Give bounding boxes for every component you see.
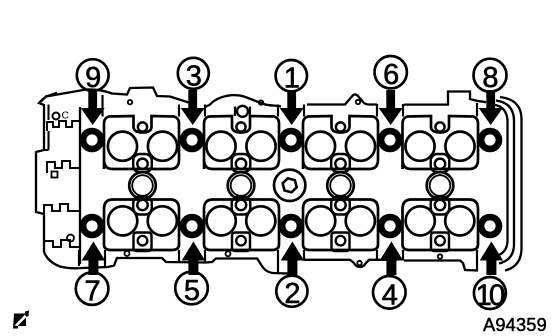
cylinder 2 tower boss walls (235, 107, 250, 117)
head bolt 4 (bottom row) (378, 214, 403, 239)
left block castellation row 3 (44, 204, 79, 215)
right end middle wall arc (496, 101, 514, 264)
left end block inner wall (79, 107, 81, 264)
svg-text:4: 4 (382, 279, 398, 311)
svg-text:10: 10 (475, 279, 504, 312)
callout number 4 (373, 276, 406, 311)
right end outer wall arc (500, 97, 522, 271)
camshaft bearing cap cylinder 1 bottom (104, 197, 179, 252)
bottom edge screw circle 3 (357, 261, 361, 265)
top edge screw circle mid-left (whale eye) (259, 100, 263, 104)
head bottom edge outline (44, 252, 478, 274)
left block castellation row 1 (47, 121, 79, 131)
arrow to bolt 1 (280, 90, 304, 125)
bottom edge screw circle 2 (226, 251, 231, 256)
head top edge outline (39, 88, 486, 108)
cylinder 2 tower boss circle (237, 106, 248, 117)
callout number 8 (474, 59, 507, 95)
arrow to bolt 9 (81, 90, 105, 125)
spark plug tube cylinder 4 (427, 172, 454, 199)
camshaft bearing cap cylinder 4 bottom (403, 197, 479, 252)
head bolt 3 (top row) (180, 128, 205, 153)
callout number 9 (77, 59, 109, 94)
callout number 7 (76, 272, 109, 307)
svg-text:5: 5 (184, 275, 200, 307)
arrow to bolt 7 (82, 242, 105, 276)
head bolt 9 (top row) (80, 128, 105, 153)
callout number 6 (375, 56, 407, 91)
svg-text:3: 3 (186, 60, 202, 92)
head bolt 1 (top row) (279, 128, 304, 153)
svg-text:A94359: A94359 (483, 315, 547, 335)
callout number 5 (175, 272, 208, 307)
bolt pocket walls top row (103, 95, 478, 117)
top edge screw circle left (128, 100, 132, 104)
callout number 2 (276, 276, 307, 311)
camshaft bearing cap cylinder 2 bottom (204, 197, 279, 252)
bolt pocket walls bottom row (79, 250, 477, 272)
head bolt 7 (bottom row) (80, 214, 105, 239)
arrow to bolt 6 (379, 90, 403, 125)
centre hex head plug (274, 170, 305, 201)
right end inner wall arc (493, 105, 508, 257)
svg-text:7: 7 (85, 276, 101, 308)
arrow to bolt 4 (380, 242, 403, 276)
left block small circle top (53, 113, 60, 120)
camshaft bearing cap cylinder 1 top (104, 116, 179, 172)
arrow to bolt 10 (480, 242, 503, 276)
camshaft bearing cap cylinder 4 top (403, 116, 479, 172)
camshaft bearing cap cylinder 2 top (204, 116, 279, 172)
callout number 3 (178, 58, 209, 93)
svg-text:C: C (62, 110, 70, 122)
bottom edge screw circle 1 (125, 251, 130, 256)
spark plug tube cylinder 2 (228, 172, 255, 199)
head bolt 2 (bottom row) (279, 214, 304, 239)
svg-text:6: 6 (383, 59, 399, 91)
left block wall thickness line (44, 105, 49, 151)
head bolt 5 (bottom row) (180, 214, 205, 239)
top edge screw circle mid-right (peak eye) (356, 100, 360, 104)
left block small circle bottom (67, 235, 74, 242)
arrow to bolt 3 (181, 90, 205, 125)
callout number 10 (474, 277, 506, 312)
arrow to bolt 2 (281, 242, 304, 276)
left end block outline (36, 93, 57, 252)
svg-text:1: 1 (284, 63, 300, 95)
spark plug tube cylinder 1 (129, 172, 156, 199)
camshaft bearing cap cylinder 3 bottom (303, 197, 378, 252)
head bolt 6 (top row) (378, 128, 403, 153)
callout number 1 (276, 60, 307, 95)
svg-text:2: 2 (284, 278, 300, 310)
head bolt 8 (top row) (478, 128, 503, 153)
bottom edge screw circle 4 (438, 254, 442, 258)
arrow to bolt 8 (479, 90, 503, 125)
arrow to bolt 5 (182, 242, 205, 276)
left block small square (52, 172, 58, 178)
svg-text:8: 8 (482, 62, 498, 94)
left block castellation row 4 (44, 240, 79, 250)
head bolt 10 (bottom row) (478, 214, 503, 239)
camshaft bearing cap cylinder 3 top (303, 116, 378, 172)
svg-text:9: 9 (85, 62, 101, 94)
spark plug tube cylinder 3 (327, 172, 354, 199)
left block castellation row 2 (47, 161, 79, 173)
corner marker icon (13, 311, 29, 329)
